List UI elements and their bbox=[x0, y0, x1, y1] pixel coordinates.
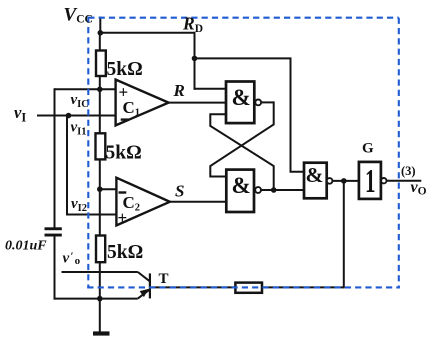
svg-text:5kΩ: 5kΩ bbox=[107, 242, 143, 263]
label minus C2 bbox=[119, 191, 127, 193]
wire AND to G bbox=[332, 180, 359, 182]
wire ground rail bbox=[54, 298, 138, 300]
wire control node to C1 plus input bbox=[55, 88, 118, 90]
NAND1 output bubble bbox=[255, 100, 261, 106]
svg-text:5kΩ: 5kΩ bbox=[107, 59, 143, 80]
resistor R2 5k bbox=[96, 133, 106, 159]
svg-text:+: + bbox=[118, 208, 128, 227]
wire discharge v'O lead bbox=[62, 271, 138, 273]
wire ground stub bbox=[99, 299, 101, 332]
svg-text:o: o bbox=[75, 255, 81, 267]
node C2 reference junction bbox=[97, 186, 103, 192]
svg-text:v: v bbox=[63, 251, 70, 267]
node ground junction bbox=[97, 296, 103, 302]
wire divider segment R2-R3 bbox=[99, 159, 101, 236]
op-amp C1 bbox=[116, 80, 169, 126]
wire RD to NAND1 input bbox=[194, 88, 228, 90]
wire output vO bbox=[387, 180, 422, 182]
wire divider bottom segment bbox=[99, 262, 101, 299]
wire capacitor top lead bbox=[54, 88, 56, 228]
node vI junction bbox=[66, 113, 72, 119]
svg-text:T: T bbox=[159, 271, 169, 287]
resistor R3 5k bbox=[96, 236, 105, 263]
svg-text:vI: vI bbox=[14, 103, 26, 125]
svg-text:5kΩ: 5kΩ bbox=[106, 143, 142, 164]
svg-text:S: S bbox=[175, 182, 184, 201]
node VCC junction bbox=[98, 30, 104, 36]
svg-text:1: 1 bbox=[365, 163, 376, 200]
resistor R1 5k bbox=[96, 51, 106, 77]
transistor T bbox=[138, 272, 151, 299]
svg-text:+: + bbox=[119, 82, 129, 101]
resistor base bbox=[235, 283, 262, 293]
node RD junction bbox=[192, 56, 198, 62]
op-amp C2 bbox=[116, 178, 169, 226]
wire cross feedback top-to-bottom bbox=[210, 101, 273, 176]
gate G output bubble bbox=[381, 178, 386, 183]
svg-text:VCC: VCC bbox=[64, 5, 93, 26]
ground bbox=[93, 331, 110, 335]
gate G buffer 1 bbox=[359, 162, 381, 199]
wire RD branch to output gate bbox=[195, 58, 305, 171]
NAND2 output bubble bbox=[255, 187, 261, 193]
wire vI input bbox=[37, 115, 117, 117]
svg-text:vI2: vI2 bbox=[71, 196, 87, 214]
svg-text:RD: RD bbox=[182, 14, 203, 36]
dashed boundary box bbox=[87, 17, 400, 289]
wire vI2 branch bbox=[67, 116, 118, 215]
label minus C1 bbox=[121, 118, 129, 120]
svg-text:(3): (3) bbox=[401, 164, 416, 178]
svg-text:&: & bbox=[306, 163, 324, 187]
gate NAND2 bbox=[226, 170, 254, 212]
svg-text:0.01uF: 0.01uF bbox=[5, 239, 47, 254]
wire RD vertical bbox=[194, 32, 196, 90]
wire NAND1 output bbox=[261, 101, 274, 103]
wire cross feedback bottom-to-top bbox=[210, 114, 273, 190]
wire VCC top rail bbox=[99, 32, 194, 34]
wire base rail bbox=[150, 286, 344, 288]
node AND output junction bbox=[341, 178, 347, 184]
wire C1 output R bbox=[168, 102, 227, 104]
svg-text:vI1: vI1 bbox=[71, 120, 87, 138]
wire divider segment R1-R2 bbox=[99, 76, 101, 134]
wire VCC stub bbox=[99, 17, 101, 34]
svg-text:G: G bbox=[362, 141, 374, 157]
svg-text:&: & bbox=[232, 85, 251, 110]
wire capacitor bottom lead bbox=[54, 237, 56, 300]
svg-text:′: ′ bbox=[71, 251, 74, 263]
gate AND output bbox=[304, 163, 327, 199]
wire C2 reference input bbox=[100, 188, 118, 190]
wire output feedback vertical bbox=[343, 181, 345, 288]
node NAND2 output junction bbox=[271, 187, 277, 193]
wire C2 output S bbox=[169, 201, 228, 203]
svg-text:vIC: vIC bbox=[71, 92, 89, 110]
svg-text:R: R bbox=[173, 81, 185, 100]
svg-text:vO: vO bbox=[411, 179, 427, 198]
wire divider top segment bbox=[99, 33, 101, 52]
AND gate output bubble bbox=[327, 178, 333, 184]
svg-text:&: & bbox=[232, 173, 251, 198]
node control voltage junction bbox=[97, 87, 103, 93]
capacitor C 0.01uF bbox=[45, 227, 62, 230]
gate NAND1 bbox=[226, 82, 254, 124]
wire NAND2 output bbox=[261, 189, 304, 191]
